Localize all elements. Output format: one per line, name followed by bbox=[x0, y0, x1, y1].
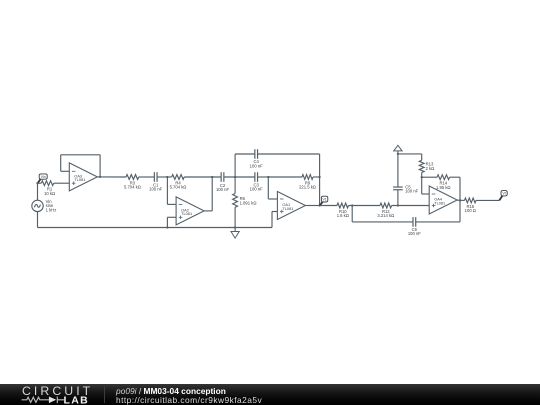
svg-text:100 nF: 100 nF bbox=[408, 231, 421, 236]
svg-text:Vf: Vf bbox=[502, 192, 505, 196]
svg-text:100 nF: 100 nF bbox=[250, 187, 263, 192]
svg-text:TL081: TL081 bbox=[181, 211, 192, 216]
svg-text:100 nF: 100 nF bbox=[216, 187, 229, 192]
svg-text:221.5 kΩ: 221.5 kΩ bbox=[299, 185, 316, 190]
svg-text:1.6 kΩ: 1.6 kΩ bbox=[337, 213, 349, 218]
svg-text:100 Ω: 100 Ω bbox=[465, 208, 476, 213]
svg-text:TL081: TL081 bbox=[282, 206, 293, 211]
svg-text:TL081: TL081 bbox=[74, 177, 85, 182]
svg-text:1.95 kΩ: 1.95 kΩ bbox=[436, 185, 451, 190]
svg-text:5.704 kΩ: 5.704 kΩ bbox=[170, 185, 187, 190]
svg-text:TL081: TL081 bbox=[434, 200, 445, 205]
svg-text:100 nF: 100 nF bbox=[149, 187, 162, 192]
svg-text:100 nF: 100 nF bbox=[250, 163, 263, 168]
svg-text:2 kΩ: 2 kΩ bbox=[426, 166, 435, 171]
svg-text:LAB: LAB bbox=[64, 394, 89, 405]
svg-text:5.704 kΩ: 5.704 kΩ bbox=[124, 185, 141, 190]
svg-text:V1: V1 bbox=[323, 198, 327, 202]
svg-text:1 kHz: 1 kHz bbox=[46, 207, 57, 212]
svg-text:10 kΩ: 10 kΩ bbox=[44, 191, 55, 196]
svg-text:Vin: Vin bbox=[41, 175, 46, 179]
svg-text:1.891 kΩ: 1.891 kΩ bbox=[240, 200, 257, 205]
svg-text:3.214 kΩ: 3.214 kΩ bbox=[377, 213, 394, 218]
svg-text:100 nF: 100 nF bbox=[405, 189, 418, 194]
